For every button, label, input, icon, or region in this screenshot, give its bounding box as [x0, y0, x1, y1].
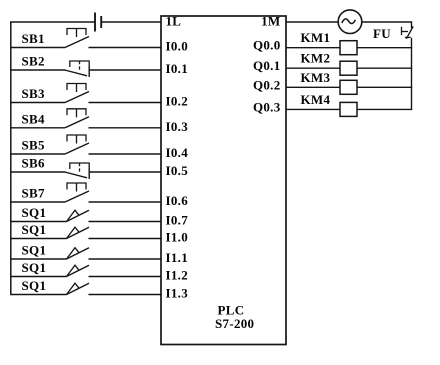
- limit switch SQ1 (terminal I1.1): [67, 248, 90, 259]
- wire battery to PLC 1L terminal: [101, 21, 161, 23]
- svg-text:FU: FU: [373, 26, 391, 41]
- label KM2: [301, 51, 331, 66]
- pushbutton SB2 (NC contact, terminal I0.1): [65, 61, 90, 77]
- label S7-200: [215, 316, 254, 331]
- svg-text:I1.1: I1.1: [166, 250, 189, 265]
- label KM3: [301, 70, 331, 85]
- pin label Q0.2: [253, 77, 281, 92]
- wire bus to SQ1: [10, 238, 66, 240]
- wire coil KM2 to right bus: [357, 67, 412, 69]
- svg-text:I1.2: I1.2: [166, 268, 189, 283]
- wire bus to SQ1: [10, 221, 66, 223]
- wire SQ1 to PLC terminal I1.2: [89, 276, 162, 278]
- label SB1: [22, 31, 45, 46]
- svg-text:1M: 1M: [261, 14, 280, 29]
- battery GB (DC supply): [95, 13, 101, 32]
- svg-text:SB3: SB3: [22, 86, 46, 101]
- pin label I1.3: [166, 286, 189, 301]
- svg-text:SQ1: SQ1: [22, 222, 47, 237]
- wire coil KM3 to right bus: [357, 86, 412, 88]
- wire top rail to battery: [10, 21, 95, 23]
- svg-text:Q0.3: Q0.3: [253, 99, 281, 114]
- pin label I0.6: [166, 193, 189, 208]
- svg-text:I0.7: I0.7: [166, 213, 189, 228]
- svg-text:I0.3: I0.3: [166, 119, 189, 134]
- wire right vertical bus: [411, 38, 413, 110]
- wire SB5 to PLC terminal I0.4: [89, 153, 162, 155]
- wire SQ1 to PLC terminal I1.1: [89, 258, 162, 260]
- svg-text:I1.3: I1.3: [166, 286, 189, 301]
- pushbutton SB1 (NO contact, terminal I0.0): [65, 29, 89, 48]
- wire bus to SB5: [10, 153, 65, 155]
- label SB7: [22, 186, 46, 201]
- svg-text:SQ1: SQ1: [22, 260, 47, 275]
- pushbutton SB6 (NC contact, terminal I0.5): [65, 163, 90, 179]
- svg-text:SB4: SB4: [22, 111, 46, 126]
- label KM4: [301, 92, 331, 107]
- pin label I0.3: [166, 119, 189, 134]
- pin label I0.5: [166, 163, 189, 178]
- svg-text:I0.4: I0.4: [166, 145, 189, 160]
- wire PLC Q0.1 to coil KM2: [286, 67, 340, 69]
- pin label I1.2: [166, 268, 189, 283]
- pin label I0.7: [166, 213, 189, 228]
- limit switch SQ1 (terminal I1.2): [67, 265, 90, 276]
- svg-text:Q0.1: Q0.1: [253, 58, 281, 73]
- label KM1: [301, 30, 331, 45]
- PLC U1 S7-200 box: [161, 16, 286, 345]
- wire SB7 to PLC terminal I0.6: [89, 201, 162, 203]
- svg-text:I0.0: I0.0: [166, 39, 189, 54]
- label SQ1: [22, 205, 47, 220]
- wire left vertical bus: [10, 22, 12, 295]
- svg-text:S7-200: S7-200: [215, 316, 254, 331]
- label SB5: [22, 138, 46, 153]
- limit switch SQ1 (terminal I1.3): [67, 283, 90, 294]
- pin label I0.0: [166, 39, 189, 54]
- pin label 1L: [166, 14, 182, 29]
- svg-text:SQ1: SQ1: [22, 205, 47, 220]
- wire SB4 to PLC terminal I0.3: [89, 127, 162, 129]
- pin label I1.1: [166, 250, 189, 265]
- svg-text:I0.2: I0.2: [166, 94, 189, 109]
- wire SB1 to PLC terminal I0.0: [89, 47, 162, 49]
- contactor coil KM4: [340, 102, 357, 116]
- contactor coil KM1: [340, 41, 357, 55]
- svg-text:SB6: SB6: [22, 156, 46, 171]
- pin label I0.2: [166, 94, 189, 109]
- svg-text:SQ1: SQ1: [22, 243, 47, 258]
- wire AC source to fuse corner: [362, 22, 412, 28]
- wire SQ1 to PLC terminal I0.7: [89, 221, 162, 223]
- svg-text:SB5: SB5: [22, 138, 46, 153]
- limit switch SQ1 (terminal I1.0): [67, 227, 90, 238]
- wire PLC Q0.3 to coil KM4: [286, 108, 340, 110]
- wire bus to SB6: [10, 171, 65, 173]
- pushbutton SB4 (NO contact, terminal I0.3): [65, 109, 89, 128]
- svg-text:1L: 1L: [166, 14, 182, 29]
- svg-text:KM2: KM2: [301, 51, 331, 66]
- svg-text:I0.1: I0.1: [166, 61, 189, 76]
- label SB2: [22, 54, 45, 69]
- label SB6: [22, 156, 46, 171]
- label FU: [373, 26, 391, 41]
- svg-text:Q0.2: Q0.2: [253, 77, 281, 92]
- pin label Q0.0: [253, 38, 281, 53]
- wire bus to SB3: [10, 102, 65, 104]
- wire SB6 to PLC terminal I0.5: [89, 171, 162, 173]
- AC source G1 (circle with sine): [338, 10, 362, 34]
- pin label I1.0: [166, 230, 189, 245]
- wire bus to SQ1: [10, 294, 66, 296]
- wire bus to SB1: [10, 47, 65, 49]
- wire PLC Q0.2 to coil KM3: [286, 86, 340, 88]
- wire SQ1 to PLC terminal I1.3: [89, 294, 162, 296]
- svg-text:I0.6: I0.6: [166, 193, 189, 208]
- svg-text:SB1: SB1: [22, 31, 45, 46]
- pushbutton SB7 (NO contact, terminal I0.6): [65, 183, 89, 202]
- contactor coil KM3: [340, 80, 357, 94]
- label SQ1: [22, 222, 47, 237]
- wire PLC Q0.0 to coil KM1: [286, 47, 340, 49]
- wire 1M to AC source: [286, 21, 338, 23]
- wire SB3 to PLC terminal I0.2: [89, 102, 162, 104]
- svg-text:KM3: KM3: [301, 70, 331, 85]
- svg-text:I0.5: I0.5: [166, 163, 189, 178]
- pushbutton SB3 (NO contact, terminal I0.2): [65, 84, 89, 103]
- svg-text:SB7: SB7: [22, 186, 46, 201]
- svg-text:KM4: KM4: [301, 92, 331, 107]
- label SQ1: [22, 260, 47, 275]
- wire bus to SQ1: [10, 276, 66, 278]
- wire SB2 to PLC terminal I0.1: [89, 69, 162, 71]
- fuse FU (breaker symbol): [402, 26, 414, 39]
- svg-text:Q0.0: Q0.0: [253, 38, 281, 53]
- wire bus to SB4: [10, 127, 65, 129]
- wire coil KM4 to right bus: [357, 108, 412, 110]
- label SB4: [22, 111, 46, 126]
- wire bus to SB2: [10, 69, 65, 71]
- label SQ1: [22, 243, 47, 258]
- svg-text:SB2: SB2: [22, 54, 45, 69]
- pin label Q0.1: [253, 58, 281, 73]
- svg-text:KM1: KM1: [301, 30, 331, 45]
- pushbutton SB5 (NO contact, terminal I0.4): [65, 135, 89, 154]
- svg-text:I1.0: I1.0: [166, 230, 189, 245]
- svg-text:SQ1: SQ1: [22, 278, 47, 293]
- wire bus to SB7: [10, 201, 65, 203]
- pin label I0.1: [166, 61, 189, 76]
- pin label I0.4: [166, 145, 189, 160]
- label SB3: [22, 86, 46, 101]
- label PLC: [218, 303, 245, 318]
- wire coil KM1 to right bus: [357, 47, 412, 49]
- label SQ1: [22, 278, 47, 293]
- pin label 1M: [261, 14, 280, 29]
- pin label Q0.3: [253, 99, 281, 114]
- wire bus to SQ1: [10, 258, 66, 260]
- wire SQ1 to PLC terminal I1.0: [89, 238, 162, 240]
- limit switch SQ1 (terminal I0.7): [67, 210, 90, 221]
- contactor coil KM2: [340, 61, 357, 75]
